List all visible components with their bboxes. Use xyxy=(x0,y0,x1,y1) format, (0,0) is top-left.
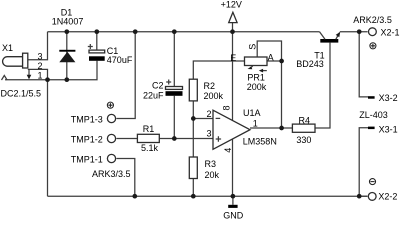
junction X1 pin2 on input rail xyxy=(45,77,50,82)
svg-text:ARK3/3.5: ARK3/3.5 xyxy=(92,169,131,179)
trimmer PR1 body xyxy=(245,57,268,66)
junction X2-1 / X3-2 branch on rail xyxy=(357,29,362,34)
wire op-amp output to R4 xyxy=(250,127,292,129)
transistor T1 base bar xyxy=(320,39,338,43)
svg-text:200k: 200k xyxy=(204,91,224,101)
svg-text:470uF: 470uF xyxy=(107,55,133,65)
resistor R1 xyxy=(137,134,159,142)
wire X3-1 down to ground rail xyxy=(359,128,368,196)
node at op-amp pin2 / R2 / R3 xyxy=(191,116,196,121)
connector X1 switch arrow xyxy=(28,69,30,75)
svg-text:2: 2 xyxy=(206,109,211,119)
svg-text:X2-2: X2-2 xyxy=(378,191,397,201)
terminal pin X3-1 xyxy=(368,127,375,130)
op-amp plus sign xyxy=(216,136,221,141)
node op-amp output / R4 / feedback xyxy=(279,126,284,131)
wire op-amp pin4 to ground xyxy=(232,139,234,196)
wire C2 bottom lead xyxy=(173,96,175,139)
resistor R3 xyxy=(189,157,197,179)
svg-text:ARK2/3.5: ARK2/3.5 xyxy=(353,15,392,25)
svg-text:20k: 20k xyxy=(205,170,220,180)
svg-text:DC2.1/5.5: DC2.1/5.5 xyxy=(1,89,42,99)
wire C2 top lead xyxy=(173,32,175,87)
connector X1 plug bullet xyxy=(3,57,23,67)
wire top +12V rail xyxy=(48,31,320,33)
wire PR1 S wiper to output node xyxy=(257,41,281,128)
wire TMP1-3 to rail xyxy=(116,32,135,119)
junction D1 anode on input rail xyxy=(64,77,69,82)
wire top rail right segment to X2-1 xyxy=(340,31,368,33)
wire R2 top to PR1 E xyxy=(193,61,244,79)
junction TMP1-3 branch on +12V rail xyxy=(133,29,138,34)
svg-text:200k: 200k xyxy=(247,82,267,92)
node at op-amp pin3 / C2 / R1 xyxy=(172,136,177,141)
wire PR1 A lead xyxy=(267,60,282,62)
transistor T1 collector diagonal xyxy=(320,32,326,40)
terminal X2-2 circle xyxy=(368,193,376,201)
wire TMP1-1 to ground xyxy=(116,159,134,197)
wire ground rail xyxy=(48,195,368,197)
resistor R4 xyxy=(292,124,315,132)
svg-text:R3: R3 xyxy=(205,159,217,169)
wire X1 pin2 down to ground rail xyxy=(28,69,48,196)
svg-text:BD243: BD243 xyxy=(296,59,324,69)
plus polarity mark below X2-1 xyxy=(370,43,376,49)
svg-text:3: 3 xyxy=(206,128,211,138)
junction D1 cathode on +12V rail xyxy=(64,29,69,34)
svg-text:+12V: +12V xyxy=(221,0,242,9)
svg-text:1N4007: 1N4007 xyxy=(52,17,84,27)
connector X1 caret mark xyxy=(2,75,8,80)
terminal pin X3-2 xyxy=(368,96,375,99)
svg-text:ZL-403: ZL-403 xyxy=(359,110,388,120)
svg-text:3: 3 xyxy=(37,52,42,62)
svg-text:X3-1: X3-1 xyxy=(379,124,398,134)
svg-text:S: S xyxy=(247,44,257,50)
junction +12V stem / pin8 on rail xyxy=(230,29,235,34)
svg-text:TMP1-3: TMP1-3 xyxy=(71,115,103,125)
svg-text:X1: X1 xyxy=(2,43,13,53)
svg-text:330: 330 xyxy=(296,135,311,145)
junction C2 top on +12V rail xyxy=(172,29,177,34)
capacitor C1 xyxy=(89,50,105,53)
wire D1 vertical lead xyxy=(66,32,68,80)
wire X1 pin3 to top rail xyxy=(28,32,48,60)
svg-text:1: 1 xyxy=(37,70,42,80)
wire R4 to T1 base xyxy=(315,43,330,128)
terminal TMP1-3 circle xyxy=(107,114,115,122)
wire R3 bottom lead xyxy=(192,179,194,197)
svg-text:E: E xyxy=(230,53,236,63)
capacitor C2 xyxy=(166,87,183,90)
svg-text:A: A xyxy=(268,52,274,62)
svg-text:TMP1-2: TMP1-2 xyxy=(71,135,103,145)
node A / S of PR1 xyxy=(279,59,284,64)
junction C1 top on +12V rail xyxy=(94,29,99,34)
svg-text:R4: R4 xyxy=(299,115,311,125)
svg-text:C2: C2 xyxy=(152,81,164,91)
wire R2 bottom to R3 top node xyxy=(192,101,194,157)
wire TMP1-2 to R1 xyxy=(116,138,137,140)
svg-text:X2-1: X2-1 xyxy=(381,27,400,37)
connector X1 body xyxy=(23,53,28,68)
power +12V symbol xyxy=(229,12,237,22)
wire +12V stem / op-amp pin8 xyxy=(232,23,234,121)
svg-text:R2: R2 xyxy=(204,81,216,91)
junction TMP1-1 on ground rail xyxy=(132,194,137,199)
wire GND stem xyxy=(232,196,234,205)
svg-text:U1A: U1A xyxy=(243,108,261,118)
terminal X2-1 circle xyxy=(369,28,377,36)
terminal TMP1-1 circle xyxy=(107,154,115,162)
resistor R2 xyxy=(189,79,197,101)
ground GND symbol xyxy=(228,205,237,208)
svg-text:R1: R1 xyxy=(143,124,155,134)
trimmer PR1 adjust marks xyxy=(250,66,253,68)
wire X1 bottom rail to C1 bottom xyxy=(5,61,97,80)
svg-text:TMP1-1: TMP1-1 xyxy=(71,155,103,165)
junction X3-1 / X2-2 on ground rail xyxy=(357,194,362,199)
svg-text:LM358N: LM358N xyxy=(243,137,277,147)
terminal TMP1-2 circle xyxy=(107,134,115,142)
svg-text:1: 1 xyxy=(253,118,258,128)
wire X2-1 node down to X3-2 xyxy=(359,32,368,97)
svg-text:5.1k: 5.1k xyxy=(141,143,159,153)
diode D1 xyxy=(59,50,75,52)
wire C1 top lead xyxy=(96,32,98,50)
junction R3 on ground rail xyxy=(191,194,196,199)
svg-text:8: 8 xyxy=(222,105,232,110)
svg-text:GND: GND xyxy=(223,211,244,219)
svg-text:X3-2: X3-2 xyxy=(379,93,398,103)
minus polarity mark above X2-2 xyxy=(369,179,375,185)
wire ground to X2-2 xyxy=(359,195,367,197)
svg-text:22uF: 22uF xyxy=(143,90,164,100)
junction op-amp pin4 / GND on ground rail xyxy=(231,194,236,199)
op-amp minus sign xyxy=(216,117,221,119)
svg-text:4: 4 xyxy=(223,148,233,153)
wire op-amp pin2 xyxy=(193,118,213,120)
wire R1 to op-amp pin3 xyxy=(159,138,213,140)
plus polarity mark above TMP1-3 xyxy=(107,102,113,108)
transistor T1 emitter diagonal with arrow xyxy=(336,33,340,40)
op-amp U1A triangle xyxy=(213,110,250,149)
